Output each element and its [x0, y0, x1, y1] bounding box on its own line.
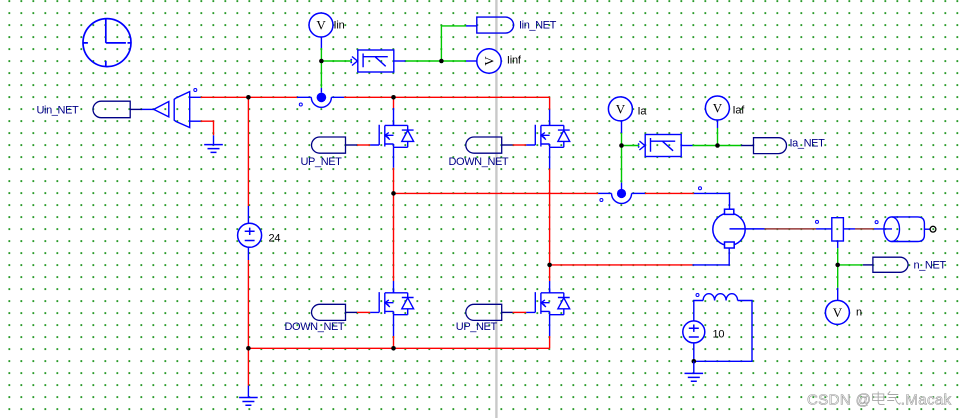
gate wire Q2 [502, 144, 527, 146]
top rail red wire [201, 96, 550, 98]
filter block Iin [351, 50, 394, 72]
tag Ia_NET [754, 138, 787, 154]
wire converter lower output to ground [201, 121, 214, 135]
wire 24V source down to bottom rail [247, 247, 249, 348]
label Ia_NET [790, 138, 826, 150]
gate wire Q3 [346, 311, 371, 313]
watermark [807, 391, 952, 408]
filter block Ia [638, 135, 681, 157]
svg-text:V: V [481, 56, 496, 66]
Q1 source wire [393, 147, 395, 193]
voltmeter Iaf [705, 96, 729, 120]
wire to ground inductor [693, 361, 695, 373]
junction dot top rail Q1 [391, 95, 396, 100]
svg-text:Uin_NET: Uin_NET [37, 105, 80, 117]
wire loop inductor circuit [694, 301, 752, 362]
wire tag to buffer [130, 108, 154, 110]
junction dot mid rail Q1 [391, 191, 396, 196]
junction dot top rail left [246, 95, 251, 100]
Q3 source wire [393, 315, 395, 349]
tag DOWN_NET top [466, 137, 502, 153]
ground below converter [204, 145, 223, 153]
filter Ia output wire [681, 145, 717, 147]
clock symbol [83, 19, 131, 67]
wire junction up to Iaf meter [717, 120, 719, 146]
wire up to Iin_NET tag [441, 26, 476, 61]
tag UP_NET top [312, 137, 346, 153]
junction dot inductor ground [692, 359, 697, 364]
mosfet Q4 [526, 289, 569, 314]
mechanical load (cylinder) [884, 217, 930, 242]
bottom rail red wire [248, 347, 549, 349]
svg-text:Iin: Iin [334, 20, 345, 32]
mosfet Q1 [370, 122, 413, 147]
top rail blue segments near node [297, 96, 344, 98]
port marker shaft 1 [816, 220, 819, 223]
label Ia [638, 106, 648, 118]
label Iin_NET [519, 20, 557, 32]
page boundary line [495, 0, 497, 418]
label Iin [334, 20, 345, 32]
Q3 drain wire [393, 193, 395, 292]
filter output wire [394, 60, 442, 62]
svg-text:n_NET: n_NET [914, 259, 947, 271]
svg-text:DOWN_NET: DOWN_NET [285, 321, 345, 333]
wire junction to Iinf meter [441, 60, 476, 62]
svg-text:Ia: Ia [638, 106, 648, 118]
wire right leg to motor bottom [550, 248, 730, 265]
port marker below Ia node [600, 199, 603, 202]
tag UP_NET bottom [466, 304, 502, 320]
junction dot Iin right [439, 59, 444, 64]
svg-text:UP_NET: UP_NET [301, 156, 343, 168]
svg-text:24: 24 [269, 233, 281, 245]
voltmeter Iin [309, 13, 333, 37]
wire Ia junction to filter [622, 145, 640, 147]
wire top rail to 24V source [247, 97, 249, 223]
dc source 10V [683, 321, 705, 343]
dc motor M [713, 209, 765, 248]
sensor output wire down [837, 241, 839, 265]
tag Iin_NET [477, 17, 514, 33]
ground main [239, 398, 258, 406]
mid rail wire left [394, 192, 612, 194]
signal-to-power converter (trapezoid) [174, 92, 190, 128]
voltmeter Iinf (rotated V) [477, 49, 501, 73]
junction dot n [835, 263, 840, 268]
node dot (blue) [317, 93, 327, 103]
tag n_NET [873, 257, 908, 272]
label DOWN_NET bottom [285, 321, 345, 333]
buffer triangle [154, 102, 169, 117]
svg-text:Iinf: Iinf [507, 55, 522, 67]
shaft sensor to load [843, 228, 892, 230]
load terminal circle [930, 226, 936, 232]
svg-text:.Macak: .Macak [901, 392, 952, 409]
port marker near node [299, 103, 302, 106]
node hop arc at Ia node [612, 193, 632, 203]
svg-text:DOWN_NET: DOWN_NET [449, 156, 509, 168]
svg-text:n: n [856, 307, 862, 319]
port marker shaft 2 [875, 221, 878, 224]
voltmeter n [825, 300, 849, 324]
label DOWN_NET top [449, 156, 509, 168]
wire junction down to node [320, 61, 322, 93]
node hop arc at Uin node [311, 97, 331, 107]
svg-text:Iin_NET: Iin_NET [519, 20, 557, 32]
label Iaf [733, 105, 746, 117]
gate wire Q1 [346, 144, 371, 146]
dc source 24V [238, 223, 262, 247]
node dot Ia (blue) [617, 189, 626, 198]
wire junction to filter [321, 60, 352, 62]
tag DOWN_NET bottom [312, 304, 346, 320]
wire junction down to n meter [837, 265, 839, 300]
svg-text:10: 10 [713, 329, 725, 341]
Q4 drain wire [549, 265, 551, 293]
speed sensor block [832, 218, 844, 241]
Q1 drain wire [393, 97, 395, 125]
Q2 drain wire [549, 97, 551, 125]
label n_NET [914, 259, 947, 271]
label 24 [269, 233, 281, 245]
port marker on converter [194, 89, 197, 92]
label UP_NET top [301, 156, 343, 168]
gate wire Q4 [502, 311, 527, 313]
junction dot bottom rail left [246, 346, 251, 351]
wire Iin meter down [320, 37, 322, 61]
inductor L [703, 294, 738, 301]
tag Uin_NET [93, 101, 130, 118]
svg-text:UP_NET: UP_NET [456, 321, 498, 333]
svg-text:CSDN @: CSDN @ [807, 392, 871, 409]
label Uin_NET [37, 105, 80, 117]
wire Ia junction down to node [621, 146, 623, 190]
label Iinf [507, 55, 522, 67]
junction dot right leg mid [547, 263, 552, 268]
converter output stubs [190, 97, 201, 121]
mid rail wire right to motor [632, 193, 730, 209]
junction dot bottom rail Q3 [391, 346, 396, 351]
wire Ia meter down [621, 121, 623, 146]
junction dot Iin left [319, 59, 324, 64]
Q4 source wire [549, 315, 551, 349]
mosfet Q2 [526, 122, 569, 147]
wire bottom rail to ground [247, 348, 249, 397]
Q2 source wire [549, 147, 551, 265]
port marker near motor wire [699, 187, 702, 190]
svg-text:Iaf: Iaf [733, 105, 746, 117]
voltmeter Ia [608, 97, 632, 121]
svg-text:Ia_NET: Ia_NET [790, 138, 826, 150]
shaft segment maroon [765, 228, 816, 230]
ground inductor [685, 373, 704, 381]
mosfet Q3 [370, 289, 413, 314]
junction dot Ia right [715, 143, 720, 148]
shaft blue into sensor [816, 228, 832, 230]
wire to n_NET tag [838, 264, 873, 266]
label 10 [713, 329, 725, 341]
port marker inductor [696, 294, 699, 297]
label n [856, 307, 862, 319]
wire junction to Ia_NET tag [718, 145, 754, 147]
label UP_NET bottom [456, 321, 498, 333]
wire blue to ground [213, 135, 215, 144]
junction dot Ia left [619, 143, 624, 148]
